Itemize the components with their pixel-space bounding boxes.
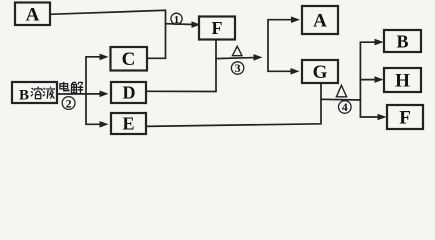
arrowhead into G bbox=[291, 68, 300, 75]
box B solution bbox=[12, 82, 57, 103]
hanzi jie (decompose) bbox=[72, 82, 84, 93]
svg-text:1: 1 bbox=[174, 14, 180, 26]
arrowhead into C bbox=[100, 54, 109, 61]
svg-text:F: F bbox=[212, 18, 223, 38]
wire arrow3 shaft bbox=[216, 58, 255, 59]
svg-text:A: A bbox=[26, 5, 40, 26]
box H bbox=[384, 68, 421, 92]
arrowhead into F2 bbox=[378, 114, 387, 121]
label circled 4 bbox=[339, 100, 352, 114]
box G bbox=[302, 60, 338, 83]
wire left branch vertical bbox=[86, 57, 100, 125]
box E bbox=[111, 113, 146, 134]
label circled 1 bbox=[171, 13, 182, 26]
svg-text:2: 2 bbox=[66, 96, 72, 110]
arrowhead into B2 bbox=[375, 39, 384, 46]
wire A1 to junction bbox=[50, 10, 166, 58]
wire F1 bottom to D line bbox=[146, 40, 216, 92]
wire arrow1 shaft to F1 bbox=[166, 23, 194, 26]
label circled 2 bbox=[62, 96, 75, 110]
box F1 bbox=[199, 17, 235, 40]
svg-text:B: B bbox=[19, 88, 29, 104]
svg-text:H: H bbox=[395, 71, 410, 92]
wire B to D bbox=[57, 93, 100, 95]
arrowhead into A2 bbox=[291, 16, 300, 23]
box A2 bbox=[302, 6, 338, 34]
svg-text:A: A bbox=[313, 11, 327, 32]
hanzi dian (electro) bbox=[60, 82, 69, 91]
label delta 3 bbox=[232, 46, 242, 55]
svg-text:D: D bbox=[123, 83, 136, 103]
arrowhead into H bbox=[375, 76, 384, 83]
box C bbox=[111, 47, 148, 71]
arrowhead arrow3 bbox=[254, 54, 263, 61]
wire right branch vertical bbox=[360, 42, 378, 117]
box A1 bbox=[15, 3, 50, 26]
arrowhead into F1 bbox=[192, 21, 201, 28]
wire H branch bbox=[360, 79, 375, 81]
hanzi ye (liquid) bbox=[43, 87, 55, 99]
hanzi rong (solute) bbox=[31, 87, 42, 99]
wire E to G bottom bbox=[146, 83, 321, 126]
svg-text:3: 3 bbox=[235, 61, 241, 75]
box B2 bbox=[384, 30, 421, 52]
wire G output horizontal bbox=[321, 98, 360, 101]
svg-text:E: E bbox=[122, 114, 134, 134]
box D bbox=[111, 82, 146, 103]
arrowhead into E bbox=[100, 121, 109, 128]
arrowhead into D bbox=[100, 91, 109, 98]
svg-text:F: F bbox=[399, 108, 411, 129]
svg-text:C: C bbox=[122, 49, 136, 70]
box F2 bbox=[387, 105, 423, 129]
label circled 3 bbox=[231, 61, 243, 75]
wire splitter vertical A2 G bbox=[268, 20, 292, 72]
label delta 4 bbox=[336, 85, 346, 97]
svg-text:G: G bbox=[313, 62, 328, 83]
svg-text:4: 4 bbox=[342, 100, 348, 114]
svg-text:B: B bbox=[396, 32, 408, 52]
